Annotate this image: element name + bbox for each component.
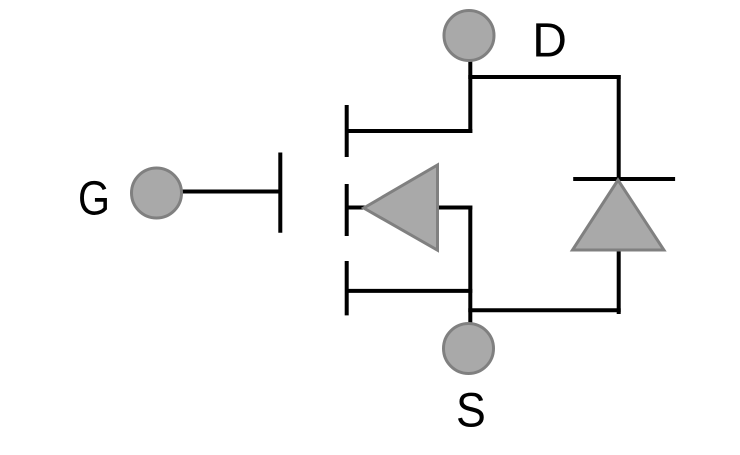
channel segment top <box>345 105 349 157</box>
terminal G <box>132 168 182 218</box>
wire: diode anode vertical <box>617 250 621 314</box>
svg-text:G: G <box>78 173 110 226</box>
wire: bottom horizontal to body diode anode <box>468 308 620 312</box>
gate bar of transistor <box>278 153 282 233</box>
wire: source connection from bottom channel segment <box>347 289 473 293</box>
body arrow of MOSFET (points to channel) <box>364 165 438 250</box>
svg-text:D: D <box>532 15 567 68</box>
wire: source vertical down to terminal S <box>468 206 472 325</box>
body diode triangle <box>573 180 664 250</box>
wire: bulk connection under arrow <box>347 206 473 210</box>
wire: drain vertical up to terminal D <box>468 59 472 133</box>
svg-text:S: S <box>456 385 486 438</box>
body diode cathode bar <box>573 177 675 181</box>
terminal D <box>444 11 494 61</box>
wire: top horizontal to body diode <box>468 75 620 79</box>
wire: diode cathode vertical <box>617 75 621 181</box>
wire: drain connection from top channel segment <box>347 129 473 133</box>
channel segment middle <box>345 184 349 236</box>
channel segment bottom <box>345 261 349 315</box>
terminal S <box>444 324 494 374</box>
wire: gate lead from terminal G to gate bar <box>180 190 280 194</box>
